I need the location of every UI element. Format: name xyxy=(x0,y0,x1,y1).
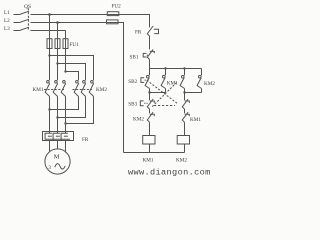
wire motor lead U xyxy=(49,141,51,152)
contactor KM1 auxiliary NO contact xyxy=(161,69,165,93)
contactor KM1 auxiliary label xyxy=(167,80,178,86)
node branch B (dot) xyxy=(56,62,58,64)
thermal overload relay FR element 1 xyxy=(45,132,54,140)
pushbutton SB1 label xyxy=(130,55,139,61)
svg-text:M: M xyxy=(54,153,60,160)
thermal relay FR NC contact (control) label xyxy=(135,30,142,36)
svg-text:3: 3 xyxy=(48,165,51,171)
wire L1 left segment xyxy=(14,14,20,16)
wire L2 left segment xyxy=(14,22,20,24)
svg-text:KM1: KM1 xyxy=(190,117,201,123)
motor M circle xyxy=(45,149,70,174)
svg-text:SB1: SB1 xyxy=(130,55,139,61)
svg-text:FU1: FU1 xyxy=(70,42,80,48)
svg-text:FR: FR xyxy=(135,30,142,36)
contactor KM2 linkage (dashed) xyxy=(73,89,93,91)
node branch A (dot) xyxy=(48,54,50,56)
pushbutton SB2 NC contact xyxy=(182,99,189,109)
contactor KM1 NC interlock contact xyxy=(182,112,189,122)
wire phase A vertical xyxy=(49,15,51,39)
wire control neutral return rail xyxy=(118,23,124,153)
wire node line left pair xyxy=(150,92,166,94)
disconnect switch QS pole 1 blade xyxy=(20,11,30,14)
wire L1 to FU2 xyxy=(31,14,108,16)
wire phase B vertical xyxy=(57,23,59,39)
contactor KM2 main contact pole 2 xyxy=(81,81,86,97)
wire node1 to SB3-NC xyxy=(149,93,151,101)
thermal overload relay FR element 2 xyxy=(53,132,62,140)
node merge W (dot) xyxy=(64,122,66,124)
wire SB2 to node 1 xyxy=(149,89,151,93)
wire FR to SB1 xyxy=(149,36,151,49)
wire node2 to SB2-NC xyxy=(184,93,186,101)
wire L2 to FU2 xyxy=(31,22,107,24)
disconnect switch QS label xyxy=(24,4,31,10)
wire bottom return bus xyxy=(124,152,185,154)
wire KM1 pole1 output xyxy=(49,96,51,131)
contactor KM1 main label xyxy=(33,87,44,93)
svg-text:KM1: KM1 xyxy=(143,157,154,163)
node merge V (dot) xyxy=(56,116,58,118)
node bus junction SB3 branch (dot) xyxy=(183,67,185,69)
disconnect switch QS pole 2 blade xyxy=(20,19,30,22)
node merge U (dot) xyxy=(48,108,50,110)
svg-text:KM1: KM1 xyxy=(167,80,178,86)
fuse FU2 element 2 xyxy=(107,20,119,24)
node L3 label xyxy=(4,26,10,32)
wire SB1 to bus xyxy=(149,59,151,68)
svg-text:KM2: KM2 xyxy=(133,117,144,123)
wire SB3 to node 2 xyxy=(184,89,186,93)
contactor KM1 main contact pole 2 xyxy=(53,81,58,97)
pushbutton SB3 label xyxy=(128,102,137,108)
svg-text:SB2: SB2 xyxy=(128,79,137,85)
wire L3 to phase C drop xyxy=(31,30,66,32)
wire crossover C to KM2 pole 1 xyxy=(66,72,79,81)
pushbutton SB1 NC contact (stop) xyxy=(147,49,154,59)
wire KM1 pole2 output xyxy=(57,96,59,131)
svg-text:L2: L2 xyxy=(4,18,10,24)
wire KM2 pole2 output merge xyxy=(58,96,86,117)
svg-text:FR: FR xyxy=(82,137,89,143)
wire motor lead W xyxy=(65,141,67,153)
wire L3 left segment xyxy=(14,30,20,32)
fuse FU1 element 3 xyxy=(63,39,68,49)
contactor coil KM1 xyxy=(143,136,155,145)
motor 3 label xyxy=(48,165,51,171)
wire phase C below FU1 xyxy=(65,49,67,72)
node dot right pair xyxy=(183,91,185,93)
svg-text:KM1: KM1 xyxy=(33,87,44,93)
wire KM2 pole3 output merge xyxy=(66,96,94,123)
fuse FU2 element 1 xyxy=(107,12,119,16)
motor ~ symbol xyxy=(55,164,65,169)
contactor KM1 main contact pole 3 xyxy=(61,81,66,97)
node bus junction KM1-aux (dot) xyxy=(164,67,166,69)
wire KM1 pole3 output xyxy=(65,96,67,131)
pushbutton SB3 NO contact (reverse start) xyxy=(180,69,184,89)
wire motor lead V xyxy=(57,141,59,150)
contactor KM2 main contact pole 1 xyxy=(74,81,79,97)
wire control top bus xyxy=(150,68,202,70)
node dot left pair xyxy=(148,91,150,93)
disconnect switch QS pole 3 blade xyxy=(20,27,30,30)
node junction L1/phase-A xyxy=(48,13,51,16)
contactor coil KM1 label xyxy=(143,157,154,163)
thermal overload relay FR label xyxy=(82,137,89,143)
wire crossover A to KM2 pole 3 xyxy=(50,56,94,81)
svg-text:QS: QS xyxy=(24,4,31,10)
svg-text:KM2: KM2 xyxy=(96,87,107,93)
wire node line right pair xyxy=(185,92,202,94)
thermal relay FR NC contact (control) xyxy=(147,26,158,36)
svg-text:L3: L3 xyxy=(4,26,10,32)
wire KM1 coil to bottom bus xyxy=(149,144,151,153)
wire SB3NC to KM2 interlock xyxy=(149,109,151,113)
svg-text:SB3: SB3 xyxy=(128,102,137,108)
pushbutton SB2 actuator xyxy=(141,78,148,83)
node junction L2/phase-B xyxy=(56,21,59,24)
wire phase B below FU1 xyxy=(57,49,59,81)
contactor coil KM2 label xyxy=(176,157,187,163)
linkage SB3 to SB3-NO (dashed diagonal) xyxy=(152,83,176,107)
pushbutton SB2 label xyxy=(128,79,137,85)
svg-text:FU2: FU2 xyxy=(112,4,122,10)
pushbutton SB3 NC contact xyxy=(147,99,154,109)
wire bus to SB2 xyxy=(149,69,151,76)
pushbutton SB3 actuator xyxy=(140,101,147,106)
wire KM1 interlock to KM2 coil xyxy=(184,122,186,135)
fuse FU1 element 1 xyxy=(47,39,52,49)
node L2 label xyxy=(4,18,10,24)
fuse FU2 label xyxy=(112,4,122,10)
disconnect switch QS linkage (dashed) xyxy=(27,8,29,31)
svg-text:KM2: KM2 xyxy=(176,157,187,163)
wire phase C vertical xyxy=(65,31,67,39)
wire KM2 coil to bottom bus xyxy=(184,144,186,153)
node L1 label xyxy=(4,10,10,16)
contactor KM2 main contact pole 3 xyxy=(89,81,94,97)
wire KM2 pole1 output merge xyxy=(50,96,79,109)
pushbutton SB2 NO contact (forward start) xyxy=(145,75,149,88)
wire crossover B to KM2 pole 2 xyxy=(58,64,86,81)
wire control live rail top xyxy=(119,15,150,28)
contactor KM2 NC interlock label xyxy=(133,117,144,123)
wire SB2NC to KM1 interlock xyxy=(184,109,186,113)
wire phase A below FU1 xyxy=(49,49,51,81)
contactor KM1 linkage (dashed) xyxy=(44,89,64,91)
contactor KM2 auxiliary NO contact xyxy=(197,69,201,93)
fuse FU1 element 2 xyxy=(55,39,60,49)
svg-text:www.diangon.com: www.diangon.com xyxy=(128,168,211,178)
svg-text:L1: L1 xyxy=(4,10,10,16)
fuse FU1 label xyxy=(70,42,80,48)
thermal overload relay FR element 3 xyxy=(61,132,70,140)
watermark www.diangon.com xyxy=(128,168,211,178)
thermal overload relay FR box xyxy=(43,132,74,141)
node branch C (dot) xyxy=(64,70,66,72)
contactor KM1 NC interlock label xyxy=(190,117,201,123)
linkage SB2 to SB2-NC (dashed diagonal) xyxy=(147,80,178,105)
contactor KM1 main contact pole 1 xyxy=(45,81,50,97)
pushbutton SB1 actuator xyxy=(143,53,149,57)
contactor KM2 NC interlock contact xyxy=(147,112,154,122)
contactor coil KM2 xyxy=(177,136,189,145)
contactor KM2 auxiliary label xyxy=(204,81,215,87)
wire KM2 interlock to KM1 coil xyxy=(149,122,151,135)
contactor KM2 main label xyxy=(96,87,107,93)
motor M letter xyxy=(54,153,60,160)
svg-text:KM2: KM2 xyxy=(204,81,215,87)
